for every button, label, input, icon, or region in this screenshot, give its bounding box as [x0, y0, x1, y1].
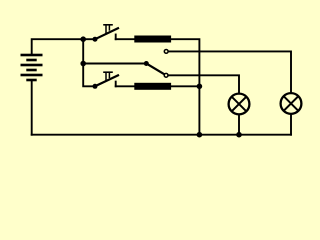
- junction node E: [236, 132, 242, 138]
- junction node D: [197, 132, 203, 138]
- lamp L2: [281, 93, 302, 114]
- wire switch S1 to resistor R1: [116, 38, 135, 40]
- resistor R2: [134, 83, 171, 90]
- wire bottom rail: [32, 134, 291, 136]
- junction node B: [80, 61, 86, 67]
- battery B1: [21, 54, 43, 82]
- junction node C: [197, 84, 203, 90]
- wire bus node A to node B: [82, 39, 84, 63]
- wire resistor R2 to node C: [171, 85, 199, 87]
- wire node C to bottom rail: [198, 86, 200, 134]
- wire battery positive to row 1: [32, 39, 83, 55]
- wire resistor R1 to node C: [171, 39, 199, 86]
- wire bus node B to switch S1 row 3: [83, 64, 95, 87]
- wire switch S2 to resistor R2: [116, 85, 135, 87]
- push switch S1: [93, 25, 119, 42]
- wire S3 lower throw to lamp L1: [168, 75, 239, 92]
- wire node B to changeover switch S3: [83, 63, 146, 65]
- wire S3 upper throw to lamp L2: [169, 51, 292, 92]
- wire battery negative to bottom rail: [31, 81, 33, 135]
- push switch S2: [93, 72, 119, 89]
- wire node A to switch S1 pivot: [83, 38, 95, 40]
- junction node A: [80, 36, 86, 42]
- resistor R1: [134, 36, 171, 43]
- wire lamp L1 to bottom rail: [238, 116, 240, 135]
- changeover switch S3: [144, 50, 168, 78]
- wire lamp L2 to bottom rail: [290, 115, 292, 135]
- lamp L1: [229, 94, 250, 115]
